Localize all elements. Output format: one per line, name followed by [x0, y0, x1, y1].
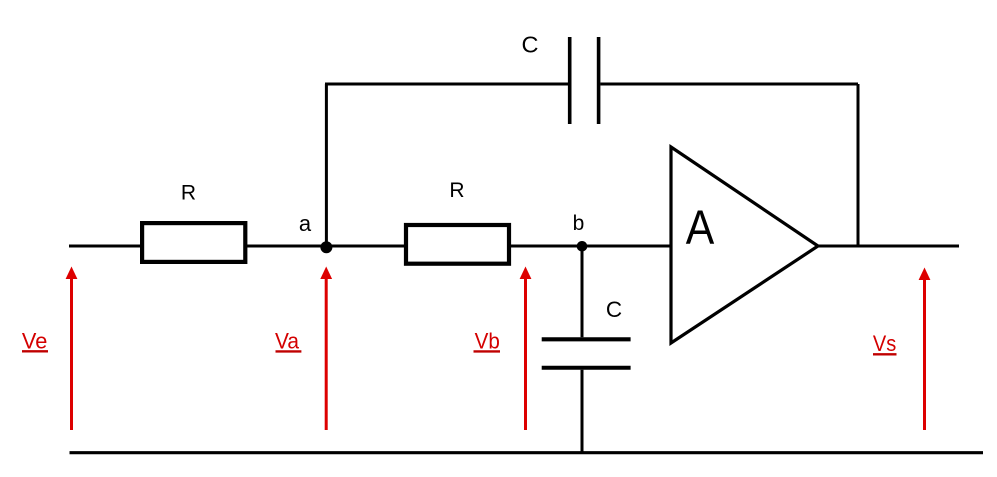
svg-text:Vb: Vb	[475, 329, 500, 354]
svg-text:R: R	[181, 182, 196, 205]
svg-text:b: b	[573, 212, 585, 235]
arrow Va	[320, 267, 332, 431]
label Ve	[22, 329, 48, 354]
label Vb	[474, 329, 501, 354]
capacitor C1	[570, 37, 599, 124]
wire input segment	[69, 245, 146, 248]
svg-text:A: A	[686, 200, 715, 254]
arrow Ve	[66, 267, 78, 431]
arrow Vb	[520, 267, 532, 431]
wire feedback top left	[325, 83, 568, 86]
node b junction dot	[577, 241, 588, 252]
svg-text:R: R	[449, 179, 464, 202]
ground rail	[70, 451, 984, 454]
wire R1 to R2	[245, 245, 408, 248]
svg-text:Ve: Ve	[22, 329, 47, 354]
wire output	[818, 245, 959, 248]
capacitor C2	[542, 339, 631, 368]
wire feedback down to output	[857, 84, 860, 246]
wire C2 down to ground rail	[581, 370, 584, 454]
wire feedback top right	[600, 83, 858, 86]
label Va	[275, 329, 301, 354]
label Vs	[873, 331, 897, 356]
svg-text:Vs: Vs	[873, 331, 896, 356]
op-amp A	[671, 147, 818, 343]
svg-text:a: a	[299, 211, 312, 236]
svg-text:C: C	[522, 32, 539, 58]
wire node b down to C2	[581, 246, 584, 337]
wire R2 to op-amp	[509, 245, 671, 248]
resistor R2	[406, 225, 509, 264]
resistor R1	[142, 223, 245, 262]
node a junction dot	[320, 241, 332, 253]
svg-text:Va: Va	[275, 329, 300, 354]
wire node a up to feedback	[325, 84, 328, 246]
svg-text:C: C	[606, 297, 622, 322]
arrow Vs	[919, 268, 931, 431]
